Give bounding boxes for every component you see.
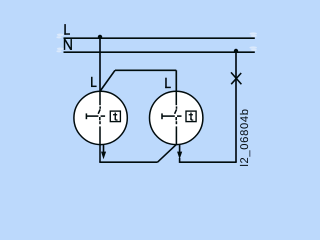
wire drop into U2 top	[175, 70, 177, 91]
wire right vertical from node B to bottom run	[235, 52, 237, 162]
U2 contact blade	[175, 109, 177, 114]
wire L supply line	[64, 37, 255, 39]
U1 contact fixed line	[86, 115, 98, 117]
wire U1 center line bottom to corner	[99, 126, 101, 162]
lamp outlet X	[231, 72, 241, 84]
wire diagonal up to U2 bottom	[158, 145, 177, 163]
label L terminal U1	[91, 77, 97, 87]
U2 actuator dash upper	[176, 106, 178, 108]
U2 actuator dash lower 2	[175, 121, 177, 124]
U1 contact terminal tick	[85, 113, 87, 119]
timer element box t U2	[186, 111, 196, 122]
break mark left end of N	[56, 48, 63, 53]
wire U1 center line top	[99, 91, 101, 105]
U2 dash to timer box	[177, 115, 182, 117]
label t U2	[189, 113, 194, 121]
svg-text:l2_06804b: l2_06804b	[239, 108, 251, 166]
U1 actuator dash lower 1	[99, 117, 101, 120]
U1 contact blade	[98, 109, 100, 114]
wire bottom-left run	[99, 161, 157, 163]
break mark right end of N	[249, 46, 257, 51]
wire N supply line	[64, 51, 255, 53]
U1 actuator dash lower 2	[99, 121, 101, 124]
timer switch U1 body	[74, 91, 127, 144]
wire from node A down to U1 top	[99, 38, 101, 91]
label L terminal U2	[165, 78, 171, 88]
wire U2 center line bottom	[175, 126, 177, 144]
node A junction dot on L	[98, 35, 102, 39]
U2 actuator dash lower 1	[175, 117, 177, 120]
U1 dash to timer box	[101, 115, 106, 117]
break mark left end of L	[56, 34, 63, 39]
wire connector run to U2	[115, 69, 176, 71]
arrow lamp direction U1	[101, 145, 106, 160]
U1 actuator dash upper	[99, 106, 101, 108]
break mark right end of L	[249, 32, 257, 37]
U2 contact terminal tick	[161, 113, 163, 119]
node B junction dot on N	[234, 49, 238, 53]
arrow lamp direction U2 with wire	[177, 144, 182, 163]
U2 contact fixed line	[162, 115, 175, 117]
wire diagonal from U1 top to connector	[100, 70, 115, 91]
wire U2 center line top	[175, 91, 177, 105]
label t U1	[113, 113, 118, 121]
wire bottom-right run	[180, 161, 237, 163]
label L supply	[64, 24, 70, 35]
timer element box t U1	[110, 111, 120, 122]
label N supply	[64, 39, 72, 50]
timer switch U2 body	[150, 91, 203, 144]
